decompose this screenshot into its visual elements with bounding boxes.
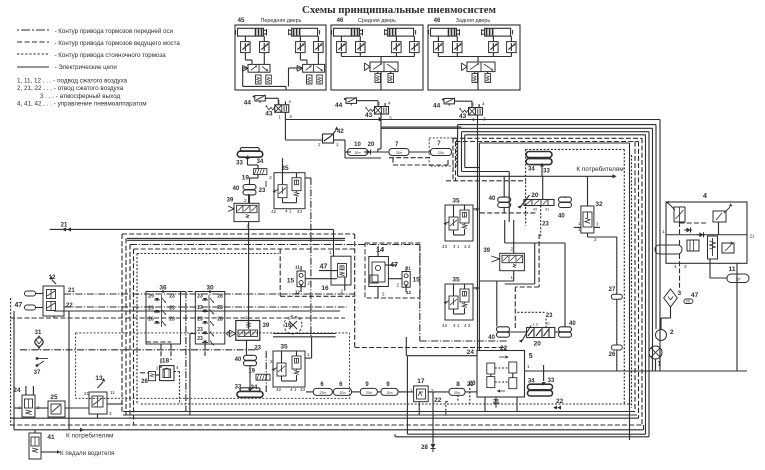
svg-text:2: 2 <box>594 237 597 242</box>
svg-text:40: 40 <box>569 321 576 327</box>
svg-text:2: 2 <box>156 366 159 371</box>
svg-text:15: 15 <box>413 277 421 284</box>
svg-text:41: 41 <box>545 208 549 212</box>
svg-text:16: 16 <box>285 323 292 329</box>
svg-text:32: 32 <box>595 201 603 208</box>
svg-text:1: 1 <box>662 229 665 234</box>
svg-text:47: 47 <box>15 302 23 309</box>
svg-text:19: 19 <box>248 369 255 375</box>
svg-text:28: 28 <box>217 305 223 311</box>
svg-text:5: 5 <box>529 353 533 360</box>
svg-text:5: 5 <box>288 317 290 321</box>
svg-text:20: 20 <box>534 341 542 348</box>
svg-text:46: 46 <box>434 18 441 24</box>
svg-text:43: 43 <box>442 244 448 249</box>
svg-text:22: 22 <box>434 397 442 404</box>
svg-text:42: 42 <box>276 387 282 392</box>
svg-text:23: 23 <box>169 317 175 323</box>
svg-text:43: 43 <box>265 110 273 117</box>
svg-text:20л: 20л <box>396 151 402 155</box>
svg-text:35: 35 <box>280 344 288 351</box>
svg-text:3: 3 <box>678 290 682 297</box>
svg-text:42: 42 <box>337 129 344 135</box>
svg-text:4: 4 <box>288 99 291 105</box>
svg-text:4: 4 <box>674 264 677 269</box>
svg-text:1: 1 <box>511 275 514 280</box>
svg-text:21: 21 <box>84 391 90 396</box>
svg-text:34: 34 <box>528 379 535 385</box>
svg-text:1: 1 <box>246 315 249 320</box>
svg-text:11: 11 <box>110 390 115 395</box>
svg-text:20: 20 <box>531 192 539 199</box>
svg-text:4 2: 4 2 <box>464 323 471 328</box>
svg-text:3 . . . - атмосферный выход: 3 . . . - атмосферный выход <box>40 92 121 100</box>
svg-text:34: 34 <box>528 167 535 173</box>
svg-text:33: 33 <box>548 378 555 384</box>
svg-text:23: 23 <box>197 317 203 323</box>
svg-text:8: 8 <box>456 381 460 388</box>
svg-text:22: 22 <box>66 303 73 309</box>
svg-text:1 3: 1 3 <box>533 323 538 327</box>
svg-text:35: 35 <box>452 277 460 284</box>
svg-text:37: 37 <box>34 370 41 376</box>
svg-text:39: 39 <box>227 198 234 204</box>
svg-text:4 2: 4 2 <box>464 244 471 249</box>
svg-text:43: 43 <box>300 387 306 392</box>
svg-text:11: 11 <box>729 266 736 273</box>
svg-text:Средняя дверь: Средняя дверь <box>358 18 396 24</box>
svg-text:17: 17 <box>417 378 425 385</box>
svg-text:23: 23 <box>259 188 266 194</box>
svg-text:19: 19 <box>242 175 250 182</box>
svg-text:21: 21 <box>750 234 756 239</box>
svg-text:К потребителям: К потребителям <box>576 165 623 173</box>
svg-text:39: 39 <box>483 248 490 254</box>
svg-text:44: 44 <box>433 103 441 110</box>
svg-text:12: 12 <box>406 290 412 295</box>
svg-text:28: 28 <box>217 317 223 323</box>
svg-text:20: 20 <box>368 142 375 148</box>
svg-text:16: 16 <box>321 285 329 292</box>
svg-text:4 1: 4 1 <box>453 323 460 328</box>
svg-text:27: 27 <box>609 287 616 293</box>
svg-text:21: 21 <box>61 223 68 229</box>
svg-text:47: 47 <box>320 264 328 271</box>
svg-text:4 1: 4 1 <box>453 244 460 249</box>
svg-text:15: 15 <box>287 278 295 285</box>
svg-text:6: 6 <box>296 316 298 320</box>
svg-text:24: 24 <box>13 387 21 394</box>
svg-text:29: 29 <box>148 306 154 312</box>
svg-text:23: 23 <box>254 346 261 352</box>
svg-text:23: 23 <box>197 294 203 300</box>
svg-text:42: 42 <box>533 208 537 212</box>
svg-text:33: 33 <box>543 169 550 175</box>
svg-text:35: 35 <box>452 198 460 205</box>
svg-text:23: 23 <box>197 336 203 342</box>
svg-text:К педали водителя: К педали водителя <box>60 450 114 457</box>
svg-text:29: 29 <box>148 294 154 300</box>
svg-text:Схемы принципиальные пневмосис: Схемы принципиальные пневмосистем <box>302 4 497 16</box>
svg-text:23: 23 <box>197 327 203 333</box>
svg-text:10: 10 <box>354 142 361 148</box>
svg-text:46: 46 <box>337 18 344 24</box>
svg-text:26: 26 <box>148 317 154 323</box>
svg-text:2: 2 <box>341 289 344 294</box>
svg-text:44: 44 <box>335 102 343 109</box>
svg-text:25: 25 <box>50 394 58 401</box>
svg-text:4: 4 <box>703 193 707 200</box>
svg-text:20л: 20л <box>339 391 345 395</box>
svg-text:23: 23 <box>169 306 175 312</box>
svg-text:41: 41 <box>47 434 55 441</box>
svg-text:1: 1 <box>336 142 339 147</box>
svg-text:2: 2 <box>670 329 674 336</box>
svg-text:31: 31 <box>35 330 42 336</box>
svg-text:23: 23 <box>469 381 476 387</box>
svg-text:26: 26 <box>609 352 616 358</box>
svg-text:1: 1 <box>307 352 310 357</box>
svg-text:1: 1 <box>527 364 530 369</box>
svg-text:40: 40 <box>488 335 495 341</box>
svg-text:20л: 20л <box>366 391 372 395</box>
svg-text:40: 40 <box>558 214 565 220</box>
svg-text:40: 40 <box>235 357 242 363</box>
svg-text:13: 13 <box>95 375 103 382</box>
svg-text:44: 44 <box>244 100 252 107</box>
svg-text:34: 34 <box>257 159 264 165</box>
svg-text:1: 1 <box>329 250 332 255</box>
svg-text:40: 40 <box>489 196 496 202</box>
svg-text:21: 21 <box>68 288 75 294</box>
svg-text:4: 4 <box>388 101 391 107</box>
svg-text:20л: 20л <box>454 391 460 395</box>
svg-text:28: 28 <box>217 294 223 300</box>
svg-text:42: 42 <box>271 209 277 214</box>
svg-text:2, 21, 22 . . . - отвод сжатог: 2, 21, 22 . . . - отвод сжатого воздуха <box>17 85 124 92</box>
svg-text:22: 22 <box>500 345 508 352</box>
svg-text:23: 23 <box>197 305 203 311</box>
svg-text:28: 28 <box>421 445 428 451</box>
svg-text:20л: 20л <box>320 391 326 395</box>
svg-text:- Электрические цепи: - Электрические цепи <box>55 64 118 71</box>
svg-text:4 1: 4 1 <box>285 209 292 214</box>
svg-text:4 1: 4 1 <box>290 387 297 392</box>
svg-text:- Контур привода стояночного т: - Контур привода стояночного тормоза <box>55 52 167 59</box>
svg-text:Передняя дверь: Передняя дверь <box>261 18 302 24</box>
svg-text:20л: 20л <box>354 151 360 155</box>
svg-text:11: 11 <box>546 322 550 326</box>
svg-text:43: 43 <box>297 209 303 214</box>
svg-text:45: 45 <box>238 18 245 24</box>
svg-text:2: 2 <box>397 283 400 288</box>
svg-text:2: 2 <box>382 292 385 297</box>
svg-text:1: 1 <box>658 361 662 368</box>
svg-text:- Контур привода тормозов пере: - Контур привода тормозов передней оси <box>55 28 174 35</box>
svg-text:23: 23 <box>546 313 553 319</box>
svg-text:3: 3 <box>684 264 687 269</box>
svg-text:11: 11 <box>295 265 300 270</box>
svg-text:4: 4 <box>176 365 179 370</box>
svg-text:20л: 20л <box>438 151 444 155</box>
svg-text:2л: 2л <box>736 277 741 282</box>
svg-text:47: 47 <box>691 292 699 299</box>
svg-text:1: 1 <box>278 114 281 120</box>
svg-text:К потребителям: К потребителям <box>66 432 113 440</box>
svg-text:33: 33 <box>236 161 243 167</box>
svg-text:18: 18 <box>162 358 170 365</box>
svg-text:40: 40 <box>233 186 240 192</box>
svg-text:2: 2 <box>308 281 311 286</box>
svg-text:1: 1 <box>410 388 413 393</box>
svg-text:2: 2 <box>318 142 321 147</box>
svg-text:4, 41, 42 . . . - управление п: 4, 41, 42 . . . - управление пневмоаппар… <box>17 101 147 108</box>
svg-text:43: 43 <box>365 112 373 119</box>
svg-text:2: 2 <box>511 247 514 252</box>
svg-text:1: 1 <box>382 246 385 251</box>
svg-text:20л: 20л <box>386 391 392 395</box>
svg-text:43: 43 <box>442 323 448 328</box>
svg-text:23: 23 <box>169 294 175 300</box>
svg-text:2: 2 <box>244 198 247 203</box>
svg-text:39: 39 <box>263 323 270 329</box>
svg-text:- Контур привода тормозов веду: - Контур привода тормозов ведущего моста <box>55 40 181 47</box>
svg-text:Задняя дверь: Задняя дверь <box>456 18 491 24</box>
svg-text:26: 26 <box>141 379 148 385</box>
svg-text:3: 3 <box>389 116 392 122</box>
svg-text:23: 23 <box>542 222 549 228</box>
svg-text:2: 2 <box>270 359 273 364</box>
svg-text:1, 11, 12 . . . - подвод сжато: 1, 11, 12 . . . - подвод сжатого воздуха <box>17 78 128 85</box>
svg-text:3: 3 <box>289 114 292 120</box>
svg-text:11: 11 <box>406 265 411 270</box>
svg-text:4: 4 <box>482 102 485 108</box>
svg-text:2: 2 <box>269 175 272 180</box>
svg-text:24: 24 <box>467 349 475 356</box>
svg-text:3: 3 <box>109 411 112 416</box>
